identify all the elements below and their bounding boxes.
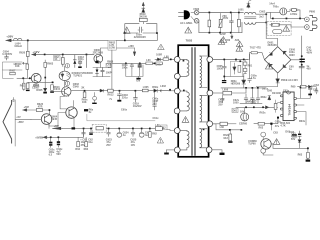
opto LED: [61, 73, 69, 80]
svg-text:50V: 50V: [291, 138, 296, 141]
diode row107: [265, 106, 270, 109]
junction +12V rail b: [62, 54, 64, 56]
secondary winding s1: [200, 56, 202, 88]
warning triangle row57 b: [236, 46, 243, 52]
svg-text:+26V: +26V: [128, 45, 134, 48]
svg-text:1000: 1000: [233, 102, 239, 105]
svg-text:D606: D606: [87, 72, 94, 75]
diode D606: [96, 68, 99, 77]
junction q601 base a: [22, 77, 24, 79]
pin circle Qb bottom: [261, 148, 266, 153]
wire +12V rail: [36, 54, 94, 56]
transistor Q603: [41, 114, 52, 125]
svg-text:R62x: R62x: [260, 112, 267, 115]
junction row57 c: [243, 59, 245, 61]
svg-text:C602: C602: [259, 10, 266, 13]
junction col b: [265, 22, 267, 24]
junction row86 b: [257, 87, 259, 89]
capacitor C612 in loop: [138, 27, 143, 33]
wire choke right to column: [256, 14, 266, 22]
resistor R631: [274, 103, 277, 109]
arrow up top: [142, 2, 144, 8]
cap C634 body: [298, 134, 301, 135]
svg-text:+C63: +C63: [313, 84, 320, 87]
warning triangle bus end: [157, 138, 163, 143]
svg-text:A60: A60: [235, 39, 240, 42]
svg-text:C945: C945: [51, 118, 58, 121]
boxed label C617: [106, 63, 111, 67]
wire R630: [254, 118, 278, 131]
wire R1 row: [213, 59, 248, 61]
junction row57 a: [223, 59, 225, 61]
wire resonator up: [244, 108, 246, 113]
wire Q603 to Q604: [49, 113, 66, 126]
pin circle R4: [206, 147, 212, 153]
svg-text:L606: L606: [222, 88, 228, 91]
plug P600 pin2: [305, 25, 310, 30]
winding w3 stubs: [180, 131, 187, 150]
winding s1 stubs: [200, 56, 207, 88]
IC pin R3: [294, 111, 297, 113]
warning triangle row57 a: [218, 39, 225, 45]
warning triangle fusebox: [283, 25, 290, 31]
svg-text:220P: 220P: [220, 33, 226, 36]
svg-text:4u: 4u: [123, 134, 126, 137]
capacitor rowA c1: [130, 63, 133, 68]
node down arrow: [133, 48, 135, 56]
svg-text:R62: R62: [75, 148, 80, 151]
svg-text:T60x: T60x: [273, 6, 279, 9]
wire TVS down: [256, 83, 277, 87]
svg-text:R62x: R62x: [261, 96, 268, 99]
svg-text:C61x: C61x: [153, 117, 160, 120]
junction s3 stub: [203, 129, 205, 131]
svg-text:R62: R62: [84, 148, 89, 151]
junction row129.8 b: [241, 129, 243, 131]
junction row107 c: [262, 106, 264, 108]
junction r2 a: [209, 32, 211, 34]
core lines: [191, 48, 195, 156]
plug P600 housing: [310, 15, 317, 30]
svg-text:100R: 100R: [156, 54, 162, 57]
svg-text:+26V: +26V: [6, 35, 13, 39]
svg-text:R63: R63: [259, 127, 264, 130]
ground left rail: [166, 150, 168, 153]
wire +26V rail: [12, 33, 158, 40]
cable brace: [3, 101, 12, 144]
svg-text:R63x: R63x: [299, 120, 306, 123]
resistor R627 vertical: [85, 141, 88, 146]
diode D610: [242, 80, 246, 88]
svg-text:1N4148: 1N4148: [272, 92, 281, 95]
secondary winding s3: [200, 129, 202, 148]
cap C623: [107, 129, 111, 136]
ground R613: [50, 91, 54, 93]
junction +12V rail c: [86, 54, 88, 56]
wire IC right pins: [297, 88, 311, 126]
svg-text:R60x: R60x: [152, 86, 159, 89]
warning triangle plug: [185, 27, 192, 33]
svg-text:25V: 25V: [106, 144, 111, 147]
svg-text:47R: 47R: [38, 106, 43, 109]
capacitor C600 plates: [300, 59, 305, 60]
svg-text:TNY264: TNY264: [288, 104, 292, 116]
IC pin L1: [280, 95, 283, 97]
wire row58 to rail: [155, 58, 174, 60]
svg-text:10/50: 10/50: [217, 68, 224, 71]
wire L602 to rail: [169, 90, 175, 92]
startup resistor: [300, 85, 306, 88]
junction x45 row: [44, 77, 46, 79]
svg-text:220u: 220u: [122, 96, 128, 99]
DC plug body: [184, 10, 190, 19]
optocoupler IC600 body: [59, 71, 70, 80]
plug P600 pin1: [305, 17, 310, 22]
capacitor C603: [230, 13, 234, 32]
junction row86 a: [245, 87, 247, 89]
svg-text:R603: R603: [47, 63, 54, 66]
wire net x60: [60, 97, 66, 109]
svg-text:10K: 10K: [15, 65, 20, 68]
svg-text:1K: 1K: [54, 58, 57, 61]
capacitor C613: [78, 61, 82, 66]
capacitor C604: [5, 55, 9, 60]
junction col a: [265, 13, 267, 15]
wire L606 right: [232, 88, 246, 93]
svg-text:6.3: 6.3: [49, 154, 53, 157]
TVS below bridge: [276, 73, 279, 83]
diode D613: [298, 140, 301, 145]
warning triangle r2 b: [236, 41, 243, 47]
junction bulk a: [301, 55, 303, 57]
wire box to Q601: [17, 77, 31, 79]
junction r1 a: [209, 12, 211, 14]
resistor R624: [149, 132, 152, 138]
svg-text:470V: 470V: [222, 17, 228, 20]
wire bridge out right: [291, 59, 302, 61]
svg-text:R613: R613: [54, 86, 61, 89]
choke coil2: [245, 22, 256, 24]
junction 5vsb b: [58, 136, 60, 138]
svg-text:2KB106: 2KB106: [268, 44, 278, 47]
svg-text:10u50V: 10u50V: [133, 105, 142, 108]
svg-text:2K: 2K: [81, 87, 84, 90]
svg-text:4.7u: 4.7u: [251, 77, 256, 80]
transformer T600 outline: [178, 45, 208, 157]
block frame line: [87, 114, 155, 121]
wire startup: [312, 87, 317, 89]
inductor LF602: [96, 127, 103, 130]
junction rowA a: [125, 63, 127, 65]
svg-text:LF60x: LF60x: [290, 13, 298, 16]
capacitor C60x 4u7: [248, 54, 251, 83]
fuse F601: [271, 23, 279, 26]
bottom bus wire: [62, 127, 164, 129]
junction loop right: [156, 32, 158, 34]
cap cluster b: [251, 89, 255, 104]
junction box top: [239, 60, 241, 62]
resistor R617 vertical: [243, 62, 247, 65]
svg-text:L60: L60: [220, 126, 225, 129]
box D61x: [232, 108, 238, 112]
junction 5vsb a: [50, 136, 52, 138]
junction row82: [52, 82, 54, 84]
cap C624 circled: [117, 132, 122, 137]
row107 wire: [236, 106, 278, 108]
junction r1 c: [238, 12, 240, 14]
bus junction 7: [149, 128, 151, 130]
svg-text:100P: 100P: [106, 71, 112, 74]
junction row129.8 a: [229, 129, 231, 131]
choke core: [245, 17, 256, 18]
inductor L608: [155, 127, 162, 131]
svg-text:2n2: 2n2: [259, 16, 264, 19]
svg-text:CER60: CER60: [239, 122, 248, 125]
left feedback box: [2, 62, 22, 78]
junction r1 b: [230, 12, 232, 14]
ground row C: [138, 76, 140, 77]
pin circle L2: [174, 73, 180, 79]
junction w1 top: [183, 60, 185, 62]
pin circle Qb top: [261, 132, 266, 137]
resistor R608: [108, 63, 111, 67]
svg-text:1K2: 1K2: [223, 137, 228, 140]
junction bottom right: [307, 147, 309, 149]
ground R625: [228, 141, 232, 143]
transistor Q605: [261, 139, 271, 149]
cap circle to gnd: [93, 96, 97, 100]
node +26V output arrow: [6, 39, 12, 42]
IC pin R2: [294, 104, 297, 106]
diode D612: [268, 96, 271, 100]
pin circle 1: [65, 64, 69, 68]
pin circle L4: [174, 108, 180, 114]
junction row90 a: [119, 90, 121, 92]
winding w2 left: [187, 92, 189, 111]
svg-text:R60: R60: [291, 85, 296, 88]
boxed label R602: [108, 40, 116, 50]
svg-text:D605: D605: [36, 89, 43, 92]
svg-text:R612: R612: [108, 93, 115, 96]
resistor R619 above loop: [139, 18, 147, 21]
svg-text:T617 4TS: T617 4TS: [250, 46, 261, 49]
capacitor C605: [222, 60, 243, 80]
svg-text:50V: 50V: [56, 153, 61, 156]
diode D605 down: [44, 88, 47, 91]
pin circle 2 mark: [66, 82, 68, 84]
resistor R603: [44, 62, 47, 67]
cap C622 electro: [89, 129, 93, 132]
ground C605: [222, 80, 226, 81]
svg-text:P600: P600: [309, 10, 315, 13]
ground tick left: [12, 98, 15, 102]
node +5VSB arrow: [43, 136, 48, 139]
boxed label R621: [54, 56, 61, 61]
svg-text:C60: C60: [226, 39, 231, 42]
resistor R611 vertical: [26, 83, 29, 89]
transistor Q601: [31, 73, 41, 83]
svg-text:0.47/50V: 0.47/50V: [2, 53, 12, 56]
startup diode: [309, 85, 312, 88]
plug circle top: [194, 10, 199, 15]
resistor R610 below base: [23, 83, 25, 89]
wire opto vertical: [64, 66, 66, 87]
wire junction down to R: [27, 41, 29, 65]
snubber loop box: [125, 24, 157, 33]
IC pin L3: [280, 108, 283, 110]
pin circle 2: [65, 81, 69, 85]
warning triangle transformer: [182, 117, 189, 123]
junction on +26V rail: [27, 40, 29, 42]
resistor R620 on vertical: [27, 51, 30, 56]
wire LF to plug pin1: [271, 10, 305, 19]
wire R609 to base: [26, 69, 28, 78]
pin circle L6: [174, 147, 180, 153]
bridge diode d: [283, 65, 286, 68]
wire thermistor to LF: [287, 10, 290, 12]
resistor R615 vertical: [208, 20, 211, 27]
wire R610: [23, 79, 25, 91]
resistor R609 vertical: [26, 64, 29, 69]
wire Q604 collector up: [73, 101, 75, 108]
wire AC row2: [199, 21, 242, 33]
svg-text:C61: C61: [313, 89, 318, 92]
vertical net x45: [44, 60, 46, 88]
choke L601 coil1: [245, 12, 256, 14]
inductor L606: [223, 91, 232, 95]
svg-text:P6KE A14 40V: P6KE A14 40V: [281, 79, 298, 82]
fuse F601 alt: [273, 30, 282, 34]
pin circle R1: [207, 57, 213, 63]
diode D608 row: [100, 89, 104, 92]
wire Q600 emitter down: [96, 61, 100, 67]
bus junction 5: [132, 128, 134, 130]
down arrow r2: [231, 34, 233, 39]
inductor L607: [220, 122, 227, 125]
svg-text:100uH: 100uH: [14, 45, 22, 48]
wire R4 right ground: [212, 150, 222, 153]
winding w2 stubs: [180, 91, 187, 111]
svg-text:R63: R63: [298, 154, 303, 157]
resistor R607: [10, 72, 15, 75]
small box left rail: [161, 125, 168, 130]
black comp: [84, 109, 88, 111]
small comp row58: [157, 58, 160, 60]
cap C628 electro: [57, 138, 59, 147]
TVS diode top: [247, 2, 250, 8]
svg-text:GN: GN: [136, 79, 140, 82]
svg-text:14s4: 14s4: [269, 2, 275, 5]
resonator X601: [241, 113, 249, 121]
svg-text:2K/1W: 2K/1W: [139, 15, 147, 18]
diode D604 vertical: [73, 55, 76, 68]
cap C626 circled: [139, 132, 144, 137]
ground R632: [306, 160, 311, 162]
cap C627: [50, 138, 52, 147]
wire R631: [276, 100, 281, 112]
winding w3 left: [187, 131, 189, 148]
svg-text:7803: 7803: [186, 39, 193, 43]
wire base row Q603: [15, 118, 31, 120]
bus junction 1: [83, 128, 85, 130]
junction loop left: [124, 32, 126, 34]
wire row103: [240, 102, 262, 104]
wire base to Q603: [31, 118, 41, 120]
warning triangle Q605: [273, 139, 280, 145]
resistor in box: [238, 65, 241, 72]
plug circle bottom: [194, 19, 199, 24]
ground cap circle: [92, 103, 97, 104]
IC pin L4: [280, 115, 283, 117]
svg-text:R62: R62: [152, 132, 157, 135]
svg-text:L605: L605: [143, 86, 149, 89]
svg-text:D61: D61: [285, 130, 290, 133]
resistor R613 vertical: [51, 85, 54, 91]
junction q601 base b: [29, 77, 31, 79]
junction w2 top: [183, 90, 185, 92]
cap C632 body: [292, 134, 297, 136]
svg-text:10K: 10K: [82, 101, 87, 104]
primary winding w1 left: [187, 60, 189, 76]
svg-text:+B5V: +B5V: [17, 121, 24, 124]
wire row129.8: [213, 124, 242, 130]
cap C631: [315, 89, 318, 94]
resistor R626 vertical: [77, 141, 80, 146]
cap C621: [82, 129, 86, 136]
wire loop to diode: [142, 8, 144, 24]
junction +12V rail a: [44, 54, 46, 56]
capacitor C614: [101, 68, 104, 77]
bus junction 6: [141, 128, 143, 130]
winding w1 stubs: [180, 59, 187, 76]
svg-text:L60: L60: [155, 124, 160, 127]
IC pin R1: [294, 98, 297, 100]
IC notch: [287, 92, 291, 94]
wire bottom right row: [263, 144, 308, 155]
transistor Q602: [62, 87, 71, 96]
wire plug to D: [191, 13, 195, 21]
IC pin L2: [280, 102, 283, 104]
small arrow above box: [23, 62, 27, 64]
junction rowA b: [139, 63, 141, 65]
svg-text:+12V: +12V: [32, 50, 39, 54]
varistor Z601: [219, 19, 222, 27]
svg-text:L60: L60: [146, 59, 151, 62]
wire +5VSB row: [47, 129, 83, 137]
resistor R630: [258, 122, 264, 125]
svg-text:R61: R61: [248, 64, 253, 67]
DC plug leads: [179, 12, 184, 16]
junction row107 b: [253, 106, 255, 108]
wire AC row1: [199, 12, 243, 14]
svg-text:+5V: +5V: [16, 116, 21, 119]
wire R2 row93: [212, 92, 223, 94]
pin circle R3: [207, 121, 213, 127]
IC U601 body: [283, 92, 294, 121]
wire down to R632: [300, 145, 308, 159]
wire Q602 base left: [54, 90, 64, 92]
transistor Q600: [94, 54, 103, 63]
ground C618: [117, 100, 121, 102]
bridge diode c: [269, 64, 272, 67]
row y82 wire: [28, 81, 54, 83]
svg-text:F600: F600: [194, 8, 200, 11]
pin circle 1 mark: [66, 65, 68, 67]
svg-text:D61: D61: [233, 109, 238, 112]
junction row90 b: [135, 90, 137, 92]
svg-text:2200/400V: 2200/400V: [134, 36, 146, 39]
fuse LF601: [291, 8, 297, 11]
